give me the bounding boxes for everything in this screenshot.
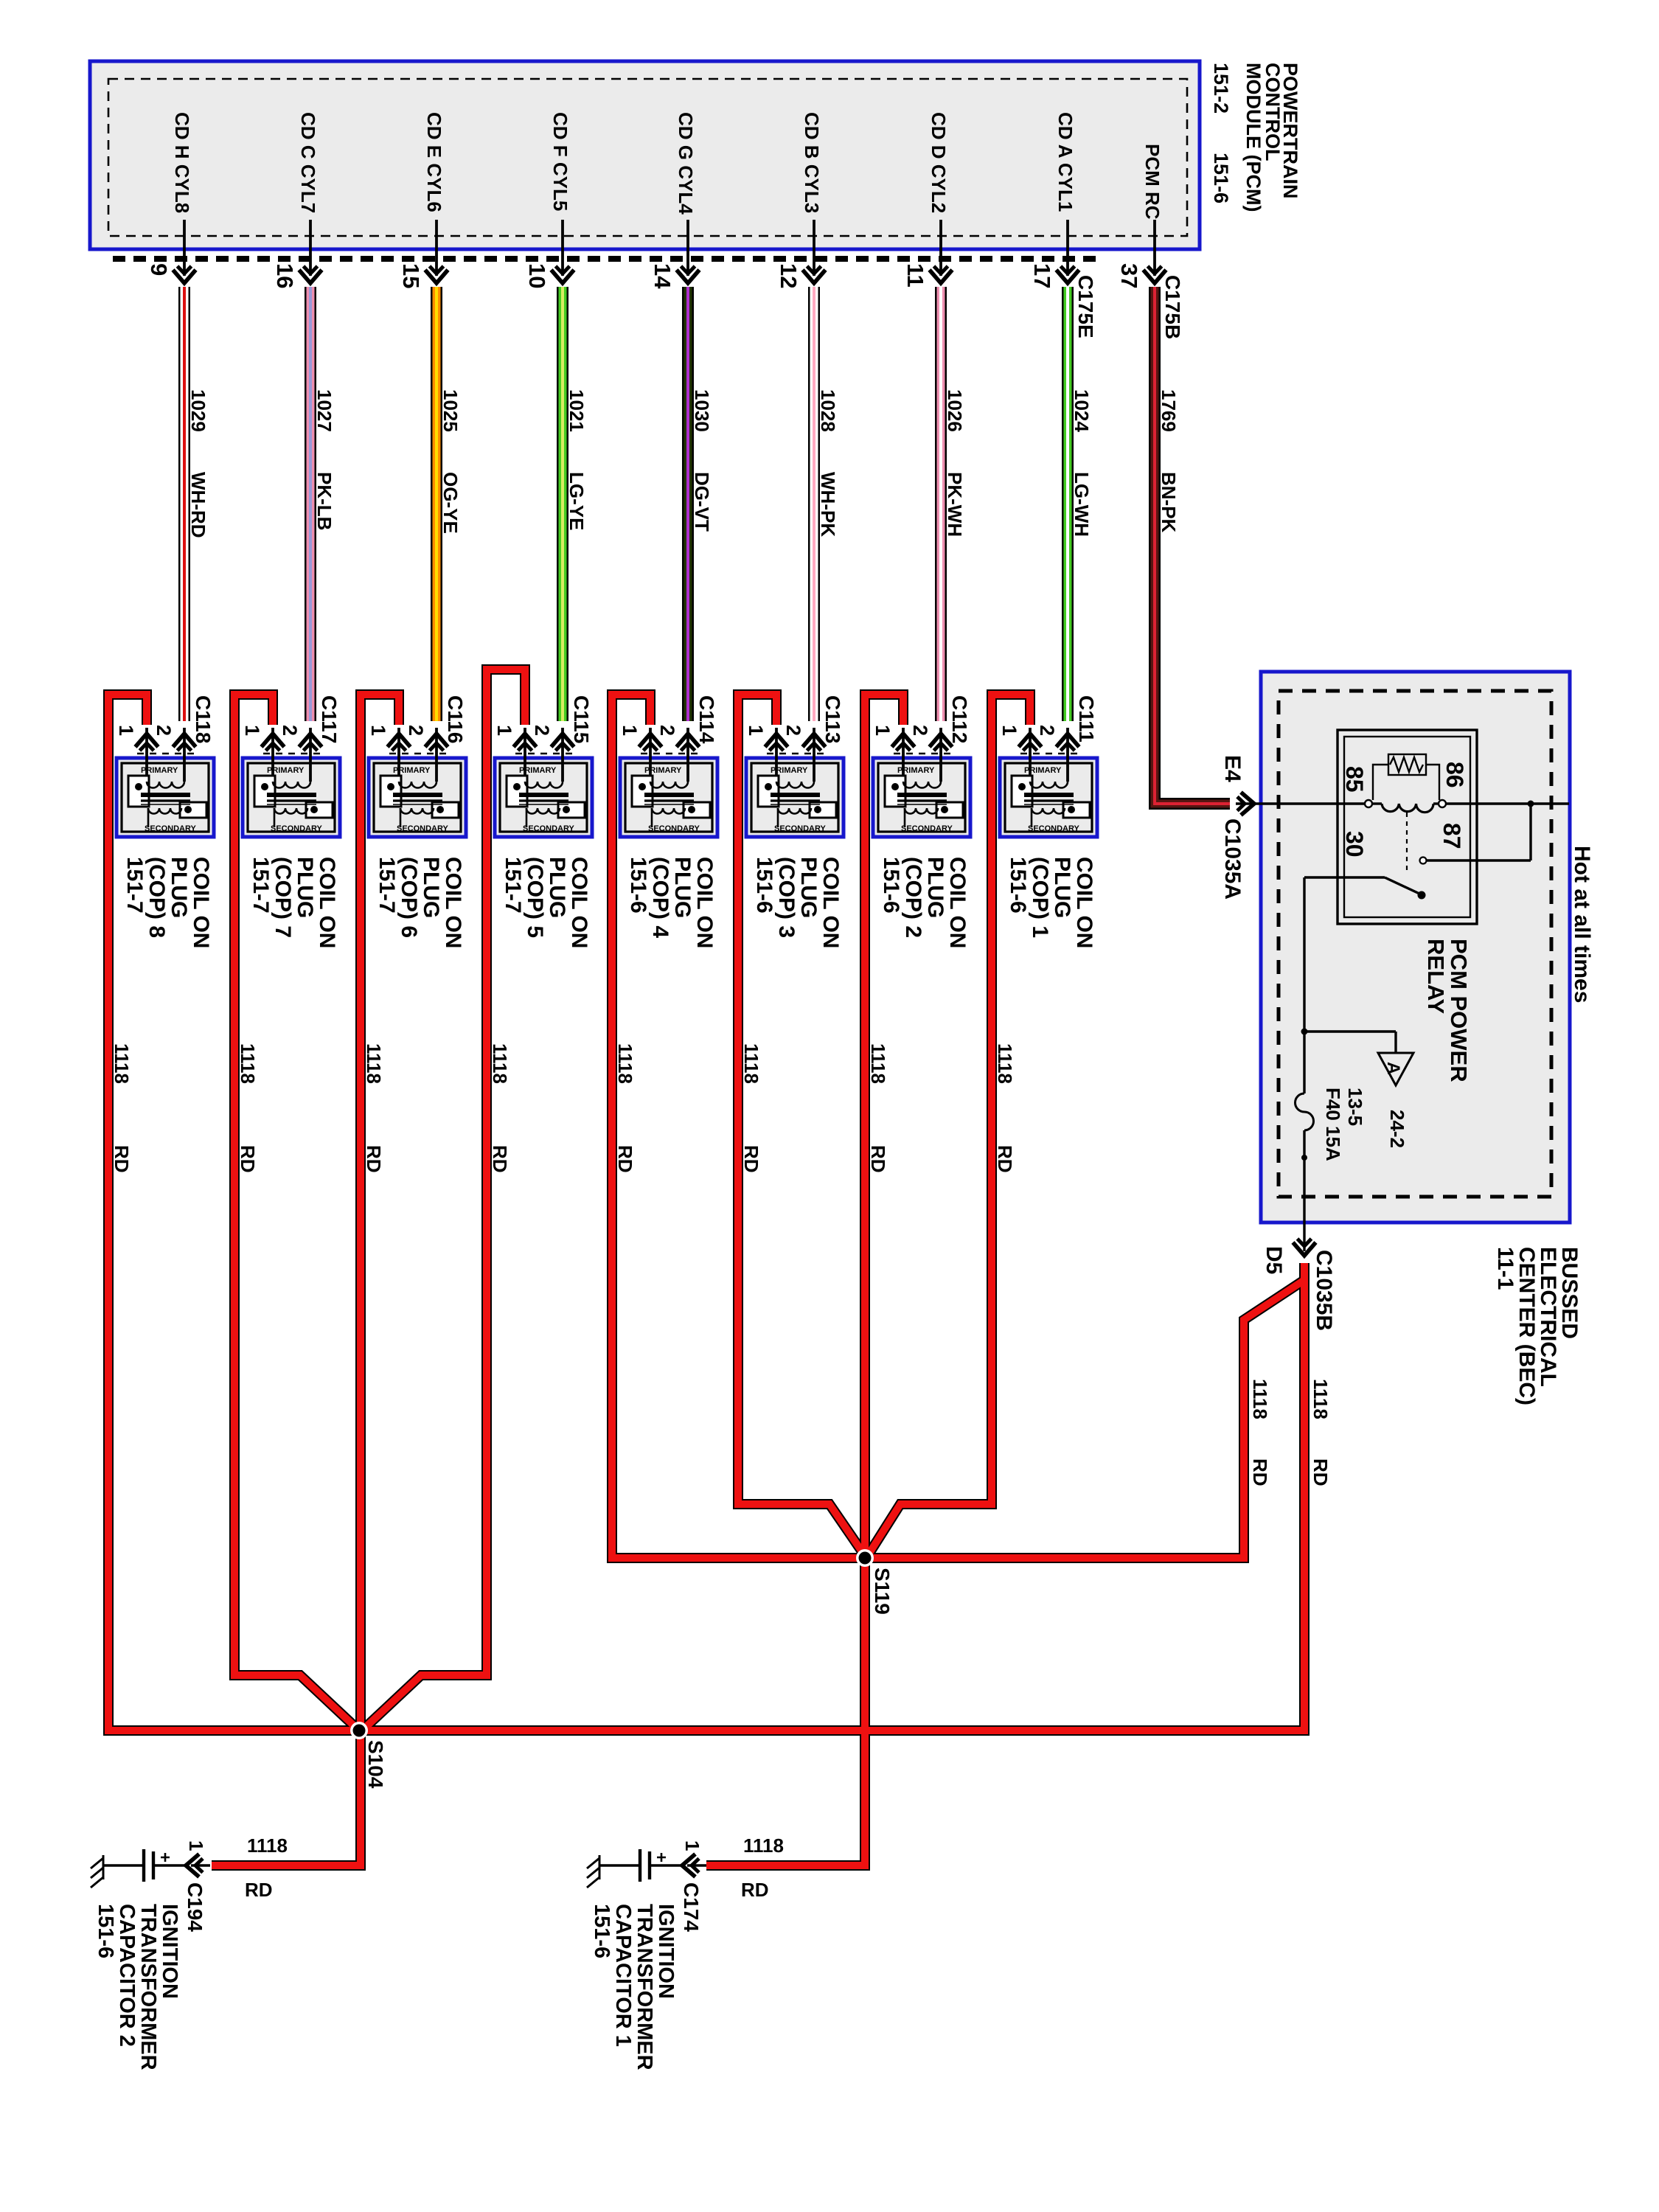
svg-text:MODULE (PCM): MODULE (PCM) [1242, 63, 1265, 212]
svg-text:C113: C113 [821, 695, 844, 743]
svg-text:TRANSFORMER: TRANSFORMER [136, 1904, 160, 2070]
svg-text:COIL ON: COIL ON [1072, 857, 1096, 948]
svg-text:CD H CYL8: CD H CYL8 [171, 112, 193, 213]
svg-text:PLUG: PLUG [545, 857, 569, 918]
svg-text:1118: 1118 [247, 1834, 288, 1857]
svg-text:A: A [1383, 1062, 1403, 1074]
svg-text:IGNITION: IGNITION [158, 1904, 181, 1999]
svg-text:1: 1 [367, 725, 389, 736]
svg-text:1: 1 [998, 725, 1020, 736]
svg-text:(COP) 5: (COP) 5 [523, 857, 547, 938]
PCM pin 14 lead [686, 220, 689, 276]
coil 5 pin 2 arrow [552, 734, 574, 751]
svg-text:F40 15A: F40 15A [1322, 1088, 1344, 1161]
svg-text:15: 15 [398, 263, 424, 288]
svg-text:CD D CYL2: CD D CYL2 [928, 112, 950, 213]
coil 5 connector dashes [515, 753, 574, 755]
svg-text:PCM RC: PCM RC [1141, 144, 1164, 220]
capacitor 1 (C174) pin 1 arrow [682, 1854, 699, 1877]
svg-text:(COP) 8: (COP) 8 [145, 857, 169, 938]
svg-text:COIL ON: COIL ON [692, 857, 717, 948]
PCM pin 15 lead [435, 220, 438, 276]
coil 6 pin 1 lead [397, 728, 400, 782]
svg-text:151-7: 151-7 [501, 857, 525, 914]
coil 3 pin 1 lead [775, 728, 778, 782]
outline red wire 1118 coil 8 branch [108, 695, 359, 1731]
svg-text:CAPACITOR 2: CAPACITOR 2 [115, 1904, 139, 2047]
svg-text:1: 1 [619, 725, 641, 736]
svg-text:RD: RD [740, 1145, 762, 1173]
coil 3 polarity dots [765, 783, 772, 790]
svg-text:PRIMARY: PRIMARY [644, 766, 682, 775]
coil 1 pin 1 arrow [1019, 734, 1042, 751]
ignition transformer capacitor 2 (C194) ground [91, 1855, 103, 1888]
svg-text:S119: S119 [871, 1568, 894, 1615]
svg-text:(COP) 1: (COP) 1 [1028, 857, 1052, 938]
coil on plug COP 1 box C111 [1000, 758, 1097, 837]
ignition transformer capacitor 1 (C174) ground [587, 1855, 599, 1888]
coil 1 pin 2 lead [1066, 728, 1069, 782]
svg-text:151-7: 151-7 [248, 857, 273, 914]
svg-text:PLUG: PLUG [1050, 857, 1074, 918]
svg-text:1118: 1118 [994, 1043, 1016, 1084]
svg-text:TRANSFORMER: TRANSFORMER [633, 1904, 656, 2070]
coil 8 pin 1 arrow [136, 734, 159, 751]
svg-text:1: 1 [872, 725, 894, 736]
svg-text:C114: C114 [695, 695, 718, 744]
svg-text:C115: C115 [570, 695, 593, 743]
svg-text:1: 1 [493, 725, 515, 736]
svg-text:C112: C112 [948, 695, 971, 743]
svg-text:1118: 1118 [237, 1043, 259, 1084]
coil 4 pin 1 arrow [639, 734, 662, 751]
coil 6 connector dashes [389, 753, 448, 755]
svg-text:RD: RD [489, 1145, 511, 1173]
svg-text:C194: C194 [184, 1882, 206, 1932]
svg-text:RD: RD [245, 1879, 273, 1901]
connector D5 C1035B arrow [1293, 1239, 1316, 1256]
svg-text:PRIMARY: PRIMARY [519, 766, 557, 775]
coil 7 pin 1 lead [271, 728, 274, 782]
red wire network black outlines [108, 669, 1304, 1865]
svg-text:DG-VT: DG-VT [691, 472, 713, 532]
svg-text:2: 2 [153, 725, 175, 736]
PCM pin 16 connector arrow [299, 266, 322, 283]
svg-text:PLUG: PLUG [419, 857, 443, 918]
svg-text:1118: 1118 [111, 1043, 133, 1084]
svg-text:CAPACITOR 1: CAPACITOR 1 [611, 1904, 635, 2047]
svg-text:PRIMARY: PRIMARY [393, 766, 431, 775]
svg-text:COIL ON: COIL ON [945, 857, 970, 948]
PCM pin 17 lead [1066, 220, 1069, 276]
svg-text:1118: 1118 [489, 1043, 511, 1084]
svg-text:1769: 1769 [1158, 389, 1180, 432]
svg-text:C1035A: C1035A [1220, 818, 1245, 900]
PCM title POWERTRAIN CONTROL MODULE (PCM) 151-2 151-6 [1210, 63, 1301, 212]
svg-text:10: 10 [524, 263, 550, 288]
red wire 1118 from S104 to C1035B [359, 1263, 1304, 1731]
svg-text:1025: 1025 [439, 389, 462, 432]
coil 8 pin 2 arrow [173, 734, 196, 751]
svg-text:151-6: 151-6 [590, 1904, 613, 1958]
svg-text:Hot at all times: Hot at all times [1570, 846, 1594, 1003]
coil 6 pin 2 lead [435, 728, 438, 782]
coil 3 pin 2 lead [813, 728, 815, 782]
Bussed Electrical Center (BEC) box [1261, 672, 1570, 1222]
outline red wire 1118 coil 4 branch through S119 to C1035B [612, 695, 1304, 1558]
coil 2 pin 1 lead [902, 728, 905, 782]
svg-text:151-7: 151-7 [122, 857, 147, 914]
svg-text:2: 2 [1036, 725, 1058, 736]
svg-text:RD: RD [1249, 1458, 1271, 1486]
fuse F40 15A [1295, 1093, 1314, 1130]
svg-text:11-1: 11-1 [1493, 1247, 1517, 1290]
svg-text:1021: 1021 [566, 389, 588, 432]
wire 1026 PK-WH from PCM pin 11 [935, 287, 947, 721]
PCM module box (POWERTRAIN CONTROL MODULE) [90, 61, 1200, 249]
svg-text:2: 2 [782, 725, 804, 736]
PCM pin 11 connector arrow [930, 266, 953, 283]
svg-text:RD: RD [111, 1145, 133, 1173]
svg-text:1118: 1118 [1310, 1379, 1332, 1419]
svg-text:PLUG: PLUG [923, 857, 947, 918]
outline red wire 1118 coil 7 branch [234, 695, 359, 1731]
coil on plug COP 2 box C112 [873, 758, 970, 837]
coil 3 transformer symbol [758, 776, 836, 827]
svg-text:11: 11 [902, 263, 928, 288]
wire 1030 DG-VT from PCM pin 14 [682, 287, 694, 721]
wire 1027 PK-LB from PCM pin 16 [305, 287, 316, 721]
connector E4 C1035A arrow [1237, 793, 1254, 815]
svg-text:PRIMARY: PRIMARY [267, 766, 305, 775]
coil 8 pin 1 lead [145, 728, 148, 782]
svg-text:151-6: 151-6 [1006, 857, 1030, 914]
coil on plug COP 8 box C118 [116, 758, 214, 837]
red wire 1118 coil 6 branch to S104 and capacitor 2 [212, 695, 399, 1865]
svg-text:WH-PK: WH-PK [817, 472, 839, 537]
svg-text:SECONDARY: SECONDARY [648, 824, 700, 833]
svg-text:C111: C111 [1075, 695, 1098, 742]
wire 1029 WH-RD from PCM pin 9 [178, 287, 190, 721]
coil on plug COP 5 box C115 [495, 758, 592, 837]
svg-text:SECONDARY: SECONDARY [1028, 824, 1080, 833]
svg-text:24-2: 24-2 [1386, 1110, 1408, 1148]
svg-text:C117: C117 [318, 695, 341, 743]
coil 6 polarity dots [387, 783, 394, 790]
svg-text:30: 30 [1341, 831, 1368, 858]
svg-text:COIL ON: COIL ON [567, 857, 591, 948]
svg-text:CD E CYL6: CD E CYL6 [423, 112, 445, 212]
coil 3 connector dashes [767, 753, 825, 755]
svg-text:BN-PK: BN-PK [1158, 472, 1180, 533]
svg-text:SECONDARY: SECONDARY [901, 824, 953, 833]
relay suppression resistor [1373, 754, 1439, 800]
svg-text:CD F CYL5: CD F CYL5 [549, 112, 571, 211]
PCM pin 37 lead [1153, 220, 1156, 276]
svg-text:1118: 1118 [1249, 1379, 1271, 1419]
coil 2 pin 1 arrow [892, 734, 915, 751]
coil 8 connector dashes [137, 753, 195, 755]
svg-text:(COP) 2: (COP) 2 [901, 857, 925, 938]
red wire 1118 coil 5 branch [362, 669, 525, 1731]
svg-text:C116: C116 [444, 695, 467, 743]
svg-text:PRIMARY: PRIMARY [1024, 766, 1062, 775]
svg-text:14: 14 [650, 263, 675, 289]
PCM pin 17 connector arrow [1057, 266, 1079, 283]
svg-text:RD: RD [614, 1145, 636, 1173]
relay pin 85 circle [1365, 800, 1372, 807]
svg-text:LG-YE: LG-YE [566, 472, 588, 530]
coil 5 pin 1 lead [524, 728, 526, 782]
relay coil line E4 to pin 86 and hot feed [1236, 802, 1365, 804]
PCM pin 37 connector arrow [1144, 266, 1166, 283]
svg-text:1118: 1118 [743, 1834, 784, 1857]
coil 5 transformer symbol [507, 776, 585, 827]
outline red wire 1118 from S104 to C1035B [359, 1263, 1304, 1731]
coil 7 connector dashes [263, 753, 321, 755]
red wire 1118 coil 4 branch through S119 to C1035B [612, 695, 1304, 1558]
coil 5 pin 1 arrow [514, 734, 537, 751]
relay pin 87 [1420, 858, 1427, 864]
svg-text:1024: 1024 [1071, 389, 1093, 432]
red wire 1118 coil 2 branch through S119 to capacitor 1 [706, 695, 903, 1865]
svg-text:2: 2 [909, 725, 931, 736]
svg-text:1026: 1026 [944, 389, 966, 432]
outline red wire 1118 coil 6 branch to S104 and capacitor 2 [212, 695, 399, 1865]
coil 5 polarity dots [513, 783, 521, 790]
coil on plug COP 6 box C116 [369, 758, 466, 837]
svg-text:CD A CYL1: CD A CYL1 [1054, 112, 1077, 212]
wire 1021 LG-YE from PCM pin 10 [557, 287, 568, 721]
coil 7 pin 1 arrow [262, 734, 285, 751]
svg-text:PLUG: PLUG [670, 857, 695, 918]
coil on plug COP 3 box C113 [746, 758, 844, 837]
svg-text:2: 2 [656, 725, 678, 736]
PCM pin 16 lead [309, 220, 312, 276]
coil 6 transformer symbol [380, 776, 459, 827]
svg-text:151-6: 151-6 [1210, 153, 1232, 204]
svg-text:85: 85 [1341, 766, 1368, 793]
svg-text:S104: S104 [364, 1740, 387, 1789]
svg-text:CD C CYL7: CD C CYL7 [297, 112, 319, 213]
svg-text:2: 2 [279, 725, 301, 736]
svg-text:COIL ON: COIL ON [818, 857, 843, 948]
svg-text:(COP) 4: (COP) 4 [648, 857, 672, 938]
coil 1 pin 2 arrow [1057, 734, 1079, 751]
outline red wire 1118 coil 5 branch [362, 669, 525, 1731]
svg-text:PK-WH: PK-WH [944, 472, 966, 537]
coil 4 polarity dots [639, 783, 646, 790]
svg-text:151-6: 151-6 [94, 1904, 117, 1958]
svg-text:PRIMARY: PRIMARY [897, 766, 935, 775]
PCM pin 10 lead [561, 220, 564, 276]
coil 1 polarity dots [1018, 783, 1026, 790]
PCM power relay box [1338, 730, 1477, 924]
coil 6 pin 2 arrow [425, 734, 448, 751]
svg-text:16: 16 [272, 263, 298, 288]
coil 1 connector dashes [1020, 753, 1079, 755]
red wire 1118 coil 8 branch [108, 695, 359, 1731]
PCM pin 11 lead [939, 220, 942, 276]
svg-text:2: 2 [405, 725, 427, 736]
coil 2 transformer symbol [885, 776, 963, 827]
svg-text:151-6: 151-6 [626, 857, 650, 914]
coil 1 pin 1 lead [1029, 728, 1032, 782]
svg-text:1118: 1118 [614, 1043, 636, 1084]
svg-text:13-5: 13-5 [1344, 1088, 1366, 1126]
svg-text:C175B: C175B [1161, 275, 1184, 339]
svg-text:(COP) 6: (COP) 6 [397, 857, 421, 938]
svg-text:151-6: 151-6 [879, 857, 903, 914]
svg-text:SECONDARY: SECONDARY [271, 824, 323, 833]
svg-text:1029: 1029 [187, 389, 209, 432]
coil 8 transformer symbol [128, 776, 206, 827]
svg-text:1030: 1030 [691, 389, 713, 432]
lead from fuse to D5 [1303, 1130, 1305, 1251]
svg-text:E4: E4 [1220, 755, 1245, 782]
PCM pin 12 connector arrow [803, 266, 826, 283]
coil on plug COP 4 box C114 [620, 758, 717, 837]
svg-text:D5: D5 [1262, 1246, 1286, 1274]
PCM pin 14 connector arrow [677, 266, 700, 283]
svg-text:1: 1 [115, 725, 137, 736]
splice S119 [856, 1549, 874, 1567]
coil 8 polarity dots [135, 783, 142, 790]
svg-text:RD: RD [994, 1145, 1016, 1173]
coil 2 pin 2 lead [939, 728, 942, 782]
coil 7 transformer symbol [254, 776, 333, 827]
capacitor 1 (C174) symbol [599, 1849, 706, 1882]
circuit breaker A triangle [1378, 1053, 1413, 1085]
coil 7 pin 2 arrow [299, 734, 322, 751]
svg-text:17: 17 [1029, 263, 1055, 288]
PCM pin 9 connector arrow [173, 266, 196, 283]
wire 1769 BN-PK from PCM pin 37 [1155, 287, 1230, 804]
PCM pin 12 lead [813, 220, 815, 276]
svg-text:PK-LB: PK-LB [313, 472, 335, 530]
svg-text:(COP) 7: (COP) 7 [271, 857, 295, 938]
coil 3 pin 1 arrow [765, 734, 788, 751]
outline red wire 1118 coil 2 branch through S119 to capacitor 1 [706, 695, 903, 1865]
svg-text:RD: RD [741, 1879, 769, 1901]
relay pin 86 circle [1439, 800, 1446, 807]
svg-text:1: 1 [241, 725, 263, 736]
coil 4 transformer symbol [632, 776, 710, 827]
svg-text:PLUG: PLUG [293, 857, 317, 918]
svg-text:1118: 1118 [867, 1043, 889, 1084]
svg-text:C118: C118 [192, 695, 215, 743]
capacitor 2 (C194) pin 1 arrow [186, 1854, 203, 1877]
svg-text:12: 12 [776, 263, 801, 288]
svg-text:RD: RD [867, 1145, 889, 1173]
svg-text:RD: RD [1310, 1458, 1332, 1486]
coil 8 pin 2 lead [183, 728, 186, 782]
svg-text:1028: 1028 [817, 389, 839, 432]
svg-text:SECONDARY: SECONDARY [523, 824, 575, 833]
svg-text:RD: RD [237, 1145, 259, 1173]
branch from pin 30 to fuse and breaker A [1303, 877, 1305, 1093]
coil 6 pin 1 arrow [388, 734, 411, 751]
coil 7 pin 2 lead [309, 728, 312, 782]
outline red wire 1118 coil 1 branch [865, 695, 1030, 1560]
svg-text:2: 2 [531, 725, 553, 736]
svg-text:CD G CYL4: CD G CYL4 [675, 112, 697, 215]
svg-text:1118: 1118 [363, 1043, 385, 1084]
coil 2 connector dashes [894, 753, 952, 755]
svg-text:C175E: C175E [1074, 275, 1097, 338]
svg-text:86: 86 [1441, 762, 1468, 788]
svg-text:PLUG: PLUG [796, 857, 821, 918]
PCM pin 10 connector arrow [552, 266, 574, 283]
svg-text:87: 87 [1439, 823, 1465, 849]
wire 1025 OG-YE from PCM pin 15 [431, 287, 442, 721]
svg-text:COIL ON: COIL ON [189, 857, 213, 948]
svg-text:COIL ON: COIL ON [441, 857, 465, 948]
svg-text:WH-RD: WH-RD [187, 472, 209, 538]
svg-text:1: 1 [185, 1840, 207, 1851]
coil 5 pin 2 lead [561, 728, 564, 782]
svg-text:(COP) 3: (COP) 3 [774, 857, 799, 938]
svg-text:1027: 1027 [313, 389, 335, 432]
svg-text:IGNITION: IGNITION [654, 1904, 678, 1999]
svg-text:CD B CYL3: CD B CYL3 [801, 112, 823, 213]
red wire network [108, 669, 1304, 1865]
red wire 1118 coil 3 branch [738, 695, 865, 1556]
splice S104 [350, 1722, 368, 1739]
svg-text:SECONDARY: SECONDARY [774, 824, 827, 833]
svg-text:RELAY: RELAY [1423, 939, 1449, 1015]
coil 3 pin 2 arrow [803, 734, 826, 751]
svg-text:C1035B: C1035B [1312, 1250, 1336, 1331]
wire 1028 WH-PK from PCM pin 12 [808, 287, 820, 721]
svg-text:37: 37 [1116, 263, 1142, 288]
svg-text:SECONDARY: SECONDARY [397, 824, 449, 833]
PCM pin 9 lead [183, 220, 186, 276]
svg-text:151-6: 151-6 [752, 857, 776, 914]
svg-text:C174: C174 [680, 1882, 703, 1932]
wire 1024 LG-WH from PCM pin 17 [1062, 287, 1074, 721]
outline red wire 1118 coil 3 branch [738, 695, 865, 1556]
coil 4 connector dashes [641, 753, 699, 755]
coil 2 polarity dots [891, 783, 899, 790]
relay pin 30 line and switch lever [1304, 876, 1385, 878]
svg-text:PRIMARY: PRIMARY [141, 766, 178, 775]
svg-text:9: 9 [146, 263, 172, 276]
svg-text:SECONDARY: SECONDARY [145, 824, 197, 833]
svg-text:PCM POWER: PCM POWER [1446, 939, 1472, 1082]
svg-text:LG-WH: LG-WH [1071, 472, 1093, 537]
svg-text:1: 1 [745, 725, 767, 736]
svg-text:151-2: 151-2 [1210, 63, 1232, 114]
svg-text:151-7: 151-7 [375, 857, 399, 914]
relay actuator dashed link [1406, 813, 1408, 874]
PCM pin 15 connector arrow [425, 266, 448, 283]
PCM connector dashed line [113, 256, 1099, 262]
red wire 1118 coil 7 branch [234, 695, 359, 1731]
svg-text:PLUG: PLUG [167, 857, 191, 918]
svg-text:RD: RD [363, 1145, 385, 1173]
coil 4 pin 1 lead [649, 728, 652, 782]
coil 7 polarity dots [261, 783, 268, 790]
svg-text:COIL ON: COIL ON [315, 857, 339, 948]
coil on plug COP 7 box C117 [243, 758, 340, 837]
coil 4 pin 2 lead [686, 728, 689, 782]
svg-text:1: 1 [681, 1840, 703, 1851]
capacitor 2 (C194) symbol [103, 1849, 210, 1882]
svg-text:OG-YE: OG-YE [439, 472, 462, 534]
red wire 1118 coil 1 branch [865, 695, 1030, 1560]
svg-text:1118: 1118 [740, 1043, 762, 1084]
